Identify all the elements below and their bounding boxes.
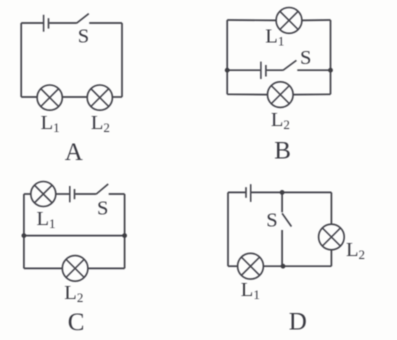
wire B left edge bbox=[226, 20, 228, 94]
lamp L2 (circuit B) bbox=[268, 82, 294, 108]
lamp L2 (circuit A) bbox=[87, 85, 112, 110]
circuit D frame wires bbox=[228, 184, 331, 266]
node B-right junction bbox=[328, 68, 333, 73]
wire D bottom-left to lamp L1 bbox=[228, 265, 238, 267]
battery BT-B short plate bbox=[265, 65, 267, 77]
switch S-C blade bbox=[96, 184, 108, 194]
node C-left junction bbox=[22, 233, 27, 238]
battery BT-A short plate bbox=[48, 18, 50, 28]
wire C switch to top-right bbox=[109, 193, 125, 195]
node C-right junction bbox=[122, 233, 127, 238]
wire A top-left to battery bbox=[21, 22, 43, 24]
switch S-A blade bbox=[77, 14, 89, 24]
wire C lamp L2 to bottom-right bbox=[88, 267, 125, 269]
circuit A frame wires bbox=[21, 14, 122, 97]
node B-left junction bbox=[225, 68, 230, 73]
wire D top-left to battery bbox=[228, 191, 245, 193]
wire B lamp L1 to top-right bbox=[302, 19, 331, 21]
battery BT-A long plate bbox=[43, 15, 45, 32]
wire A bottom right segment bbox=[112, 96, 122, 98]
wire C right edge bbox=[124, 194, 126, 268]
wire D switch lower segment bbox=[281, 230, 283, 266]
battery BT-B long plate bbox=[260, 62, 262, 79]
svg-text:S: S bbox=[78, 26, 89, 48]
wire C lamp L1 to battery bbox=[56, 193, 69, 195]
circuit B frame wires bbox=[227, 20, 330, 95]
wire B right edge bbox=[330, 20, 332, 94]
svg-text:S: S bbox=[300, 47, 311, 69]
battery BT-C long plate bbox=[69, 186, 71, 202]
wire B lamp L2 to bottom-right bbox=[293, 93, 330, 95]
wire B bottom-left to lamp L2 bbox=[227, 93, 267, 95]
lamp L1 (circuit A) bbox=[37, 85, 62, 110]
svg-text:C: C bbox=[68, 309, 85, 336]
svg-text:D: D bbox=[289, 309, 307, 336]
wire B middle: left node to battery bbox=[227, 69, 260, 71]
switch S-B blade bbox=[283, 60, 297, 70]
wire C middle rail bbox=[24, 235, 125, 237]
svg-text:B: B bbox=[274, 138, 291, 165]
node D-top junction bbox=[280, 190, 285, 195]
wire D lamp L1 to bottom-right bbox=[263, 265, 331, 267]
wire C left edge bbox=[23, 194, 25, 268]
wire D switch upper segment bbox=[281, 192, 283, 212]
lamp L1 (circuit C) bbox=[31, 182, 56, 207]
wire A left edge bbox=[20, 23, 22, 97]
wire A right edge bbox=[121, 23, 123, 97]
lamp L1 (circuit B) bbox=[276, 8, 302, 34]
wire A between lamps bbox=[62, 96, 87, 98]
wire D right edge lower bbox=[330, 250, 332, 266]
wire C top-left corner to lamp L1 bbox=[24, 193, 31, 195]
wire A switch to top-right corner bbox=[89, 22, 122, 24]
svg-text:S: S bbox=[97, 198, 108, 220]
lamp L1 (circuit D) bbox=[238, 253, 264, 279]
wire C bottom-left to lamp L2 bbox=[24, 267, 63, 269]
wire C battery to switch bbox=[75, 193, 96, 195]
lamp L2 (circuit D) bbox=[319, 224, 345, 250]
wire D right edge upper bbox=[330, 192, 332, 224]
battery BT-D short plate bbox=[245, 187, 247, 198]
switch S-D blade bbox=[282, 213, 291, 226]
wire B top-left to lamp L1 bbox=[227, 19, 276, 21]
wire D battery to top-right bbox=[251, 191, 331, 193]
svg-text:A: A bbox=[65, 139, 83, 166]
wire B switch to right node bbox=[297, 69, 330, 71]
battery BT-D long plate bbox=[250, 184, 252, 202]
battery BT-C short plate bbox=[74, 189, 76, 199]
svg-text:S: S bbox=[266, 209, 277, 231]
lamp L2 (circuit C) bbox=[62, 256, 88, 282]
wire B battery to switch bbox=[267, 69, 283, 71]
circuit C frame wires bbox=[24, 184, 125, 268]
wire A battery to switch bbox=[49, 22, 76, 24]
wire A bottom left segment bbox=[21, 96, 37, 98]
node D-bottom junction bbox=[281, 264, 286, 269]
wire D left edge bbox=[227, 192, 229, 266]
